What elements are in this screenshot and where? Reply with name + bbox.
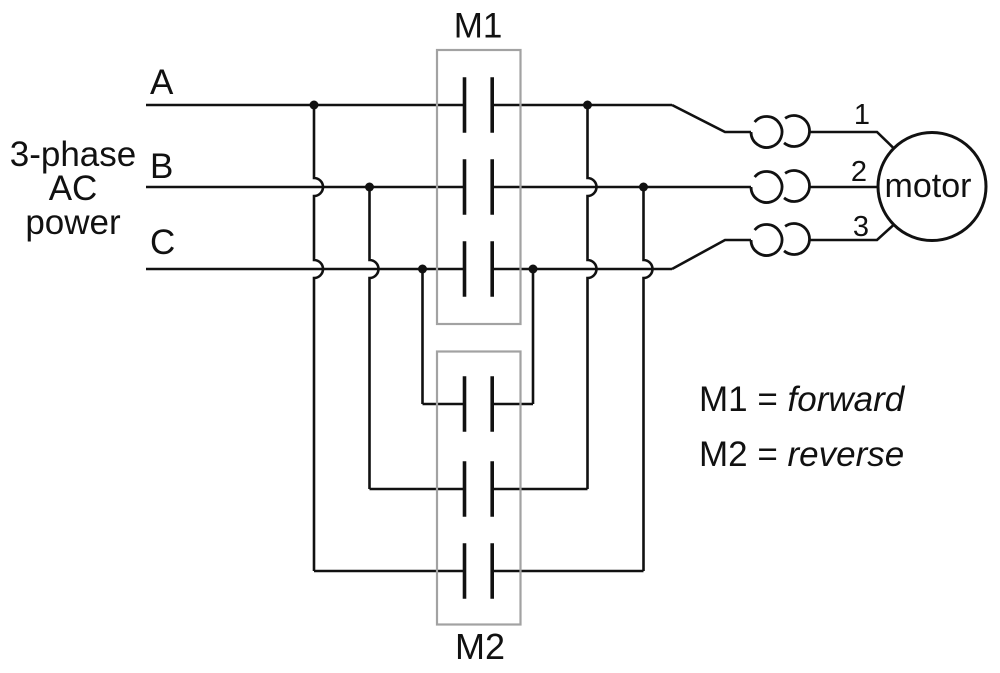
wire M2 bottom contact right (491, 570, 644, 573)
contact M1-B bars (465, 159, 493, 215)
wire M2 middle contact right (491, 488, 588, 491)
svg-text:M2 = reverse: M2 = reverse (699, 435, 904, 474)
contact M2-middle bars (465, 461, 493, 517)
node A-v1 junction (310, 101, 319, 110)
overload heater OL1 (751, 115, 810, 147)
wire line B to heater 2 (491, 186, 751, 189)
svg-text:2: 2 (851, 156, 867, 188)
svg-text:M1 = forward: M1 = forward (699, 380, 906, 419)
node wire1-v5 junction (583, 101, 592, 110)
wire line A diagonal to heater level (672, 105, 751, 132)
svg-text:M2: M2 (455, 626, 505, 667)
wire line C to diagonal (491, 268, 672, 271)
wire 2 heater to motor (809, 186, 878, 189)
label 3-phase AC power (10, 135, 136, 242)
wire line B supply (146, 186, 463, 189)
svg-text:motor: motor (885, 167, 972, 205)
wire vertical from node C supply (421, 269, 424, 404)
contact M2-bottom bars (465, 543, 493, 599)
wire line C diagonal to heater level (672, 240, 751, 269)
wire vertical from node wire2 with hop over C (644, 187, 653, 571)
node wire3-v4 junction (529, 265, 538, 274)
contact M2-top bars (465, 376, 493, 432)
wire vertical from node B supply with hop over C (370, 187, 379, 489)
wire vertical from node wire3 (532, 269, 535, 404)
wire M2 top contact left (423, 403, 464, 406)
wire line A supply (146, 104, 463, 107)
node B-v2 junction (365, 183, 374, 192)
contact M1-A bars (465, 77, 493, 133)
motor (878, 133, 986, 241)
svg-text:3: 3 (853, 211, 869, 243)
contactor M2 enclosure box (437, 352, 521, 625)
contactor M1 enclosure box (437, 50, 521, 324)
svg-text:B: B (150, 147, 173, 186)
wire vertical from node wire1 with hops over B and C (588, 105, 597, 489)
wire 1 heater to motor (809, 132, 894, 148)
svg-text:C: C (150, 223, 175, 262)
svg-text:power: power (25, 203, 121, 242)
wire M2 top contact right (491, 403, 533, 406)
wire M2 middle contact left (370, 488, 464, 491)
overload heater OL3 (751, 223, 810, 255)
wire line C supply (146, 268, 463, 271)
svg-text:A: A (150, 63, 174, 102)
wire vertical from node A supply with hops over B and C (314, 105, 323, 571)
wire line A to M1 right side (491, 104, 672, 107)
contact M1-C bars (465, 241, 493, 297)
node C-v3 junction (418, 265, 427, 274)
wire 3 heater to motor (809, 225, 894, 240)
svg-text:M1: M1 (454, 7, 503, 46)
overload heater OL2 (751, 170, 810, 202)
node wire2-v6 junction (639, 183, 648, 192)
wire M2 bottom contact left (314, 570, 463, 573)
svg-text:1: 1 (854, 99, 870, 131)
